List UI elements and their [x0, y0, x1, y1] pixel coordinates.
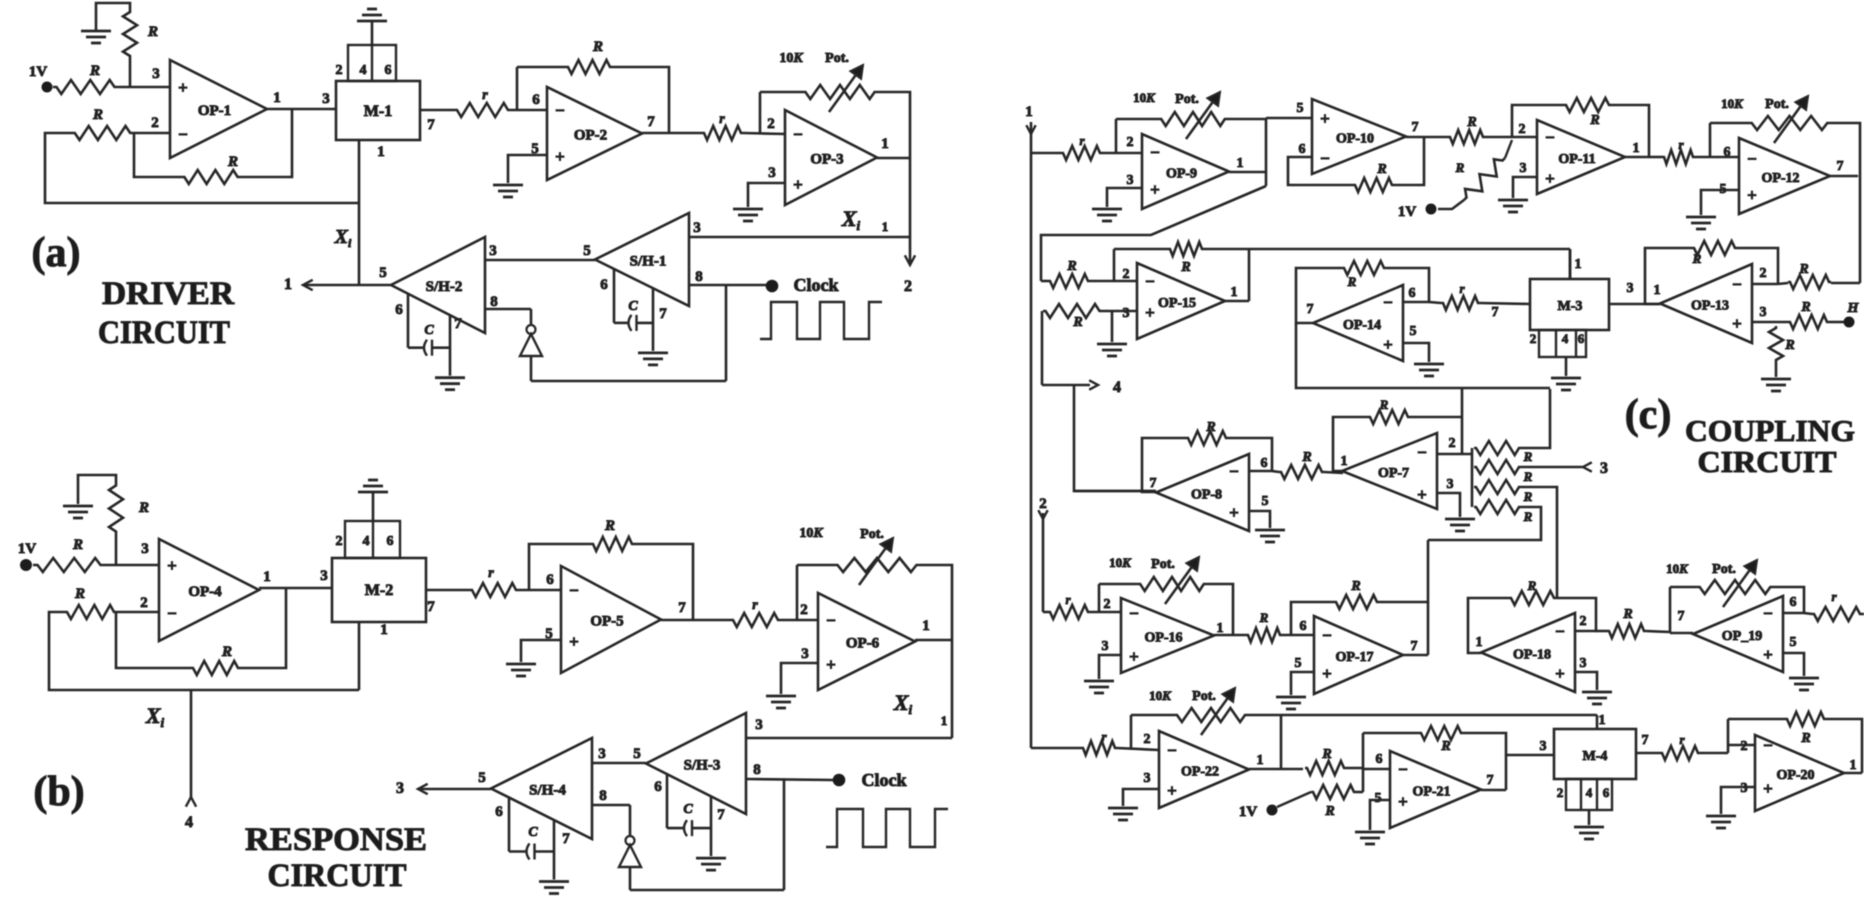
svg-text:1: 1	[1654, 283, 1661, 298]
svg-text:7: 7	[1411, 639, 1418, 654]
svg-text:6: 6	[1376, 752, 1383, 767]
svg-text:OP-5: OP-5	[590, 614, 623, 630]
svg-text:(a): (a)	[32, 230, 81, 276]
svg-text:3: 3	[1760, 305, 1767, 320]
svg-text:1: 1	[922, 618, 930, 634]
svg-text:OP-8: OP-8	[1191, 488, 1222, 503]
svg-text:7: 7	[454, 316, 462, 332]
svg-text:R: R	[1523, 509, 1533, 524]
svg-text:R: R	[72, 537, 83, 553]
svg-text:OP-4: OP-4	[188, 584, 222, 600]
svg-text:7: 7	[427, 117, 435, 133]
svg-text:R: R	[1523, 469, 1533, 484]
svg-text:−: −	[1417, 443, 1427, 462]
svg-text:7: 7	[1307, 302, 1314, 317]
svg-text:5: 5	[1410, 324, 1417, 339]
svg-text:Pot.: Pot.	[1765, 97, 1789, 112]
svg-text:Pot.: Pot.	[1192, 689, 1216, 704]
svg-text:5: 5	[1295, 656, 1302, 671]
svg-text:OP-15: OP-15	[1158, 296, 1196, 311]
svg-text:5: 5	[1375, 791, 1382, 806]
svg-text:OP-10: OP-10	[1336, 132, 1374, 147]
svg-text:OP-3: OP-3	[810, 152, 843, 168]
svg-text:6: 6	[495, 804, 503, 820]
svg-text:3: 3	[1144, 771, 1151, 786]
svg-text:7: 7	[659, 306, 667, 322]
svg-text:R: R	[1301, 450, 1311, 465]
svg-text:6: 6	[387, 534, 394, 549]
svg-text:2: 2	[1144, 732, 1151, 747]
svg-text:+: +	[826, 655, 836, 674]
svg-text:3: 3	[1580, 656, 1587, 671]
svg-text:5: 5	[633, 746, 641, 762]
svg-text:7: 7	[1492, 305, 1499, 320]
svg-text:−: −	[1129, 604, 1139, 623]
svg-text:R: R	[1466, 115, 1476, 130]
svg-text:3: 3	[1540, 739, 1547, 754]
svg-text:+: +	[1417, 485, 1427, 504]
svg-text:1: 1	[1476, 635, 1483, 650]
svg-text:1: 1	[380, 622, 388, 638]
svg-text:2: 2	[140, 595, 148, 611]
svg-text:Pot.: Pot.	[1712, 562, 1736, 577]
svg-text:1V: 1V	[1398, 204, 1417, 220]
svg-text:2: 2	[1557, 785, 1564, 800]
svg-text:7: 7	[427, 599, 435, 615]
svg-text:2: 2	[1127, 135, 1134, 150]
svg-text:4: 4	[360, 63, 367, 78]
svg-text:1: 1	[1237, 156, 1244, 171]
svg-text:R: R	[604, 518, 615, 534]
svg-text:S/H-1: S/H-1	[630, 254, 667, 270]
svg-text:OP-12: OP-12	[1761, 171, 1799, 186]
svg-text:+: +	[1732, 314, 1742, 333]
svg-text:CIRCUIT: CIRCUIT	[268, 858, 407, 894]
svg-text:7: 7	[1412, 120, 1419, 135]
svg-text:+: +	[167, 556, 177, 575]
svg-text:+: +	[1747, 185, 1757, 204]
svg-text:3: 3	[1600, 460, 1608, 477]
svg-text:R: R	[1180, 260, 1190, 275]
svg-text:3: 3	[489, 243, 497, 259]
svg-text:6: 6	[1603, 785, 1610, 800]
svg-text:1: 1	[263, 569, 271, 585]
svg-text:OP-2: OP-2	[574, 128, 607, 144]
svg-text:3: 3	[152, 66, 160, 82]
svg-text:R: R	[92, 107, 103, 123]
svg-text:OP_19: OP_19	[1722, 629, 1762, 644]
svg-text:1V: 1V	[1239, 804, 1258, 820]
svg-text:2: 2	[151, 115, 159, 131]
svg-text:10K: 10K	[1133, 90, 1156, 105]
svg-text:+: +	[1555, 664, 1565, 683]
svg-text:7: 7	[647, 114, 655, 130]
svg-text:r: r	[719, 112, 725, 127]
svg-text:R: R	[1523, 489, 1533, 504]
svg-text:S/H-3: S/H-3	[684, 758, 721, 774]
svg-text:Pot.: Pot.	[860, 527, 884, 542]
svg-text:R: R	[1440, 739, 1450, 754]
svg-text:8: 8	[695, 269, 703, 285]
svg-text:−: −	[1747, 150, 1757, 169]
svg-text:−: −	[569, 581, 579, 600]
svg-text:3: 3	[801, 646, 809, 662]
svg-text:−: −	[826, 611, 836, 630]
svg-text:R: R	[147, 24, 158, 40]
svg-text:2: 2	[336, 534, 343, 549]
svg-text:+: +	[1145, 303, 1155, 322]
svg-text:1: 1	[1599, 713, 1606, 728]
svg-text:10K: 10K	[799, 526, 824, 541]
svg-text:CIRCUIT: CIRCUIT	[1698, 444, 1837, 479]
svg-text:R: R	[1072, 315, 1082, 330]
svg-text:+: +	[1383, 335, 1393, 354]
svg-text:−: −	[1229, 462, 1239, 481]
svg-text:−: −	[1555, 622, 1565, 641]
svg-text:R: R	[1379, 397, 1389, 412]
svg-text:6: 6	[1724, 145, 1731, 160]
svg-text:6: 6	[532, 92, 540, 108]
svg-text:−: −	[1150, 143, 1160, 162]
svg-text:−: −	[1763, 736, 1773, 755]
svg-text:Clock: Clock	[794, 275, 839, 295]
svg-text:2: 2	[1530, 331, 1537, 346]
svg-text:7: 7	[1487, 773, 1494, 788]
svg-text:R: R	[1527, 578, 1537, 593]
svg-text:−: −	[167, 604, 177, 623]
svg-text:1: 1	[941, 713, 948, 728]
svg-text:3: 3	[322, 91, 330, 107]
svg-text:H: H	[1847, 301, 1860, 316]
svg-text:5: 5	[1790, 635, 1797, 650]
svg-text:3: 3	[755, 717, 763, 733]
svg-text:6: 6	[1300, 619, 1307, 634]
svg-text:1: 1	[377, 144, 385, 160]
svg-text:2: 2	[1519, 122, 1526, 137]
svg-text:2: 2	[800, 602, 808, 618]
svg-text:OP-14: OP-14	[1343, 318, 1381, 333]
svg-text:1: 1	[273, 90, 281, 106]
svg-text:M-2: M-2	[365, 582, 393, 599]
svg-text:R: R	[1784, 338, 1794, 353]
svg-text:7: 7	[1642, 733, 1649, 748]
svg-text:3: 3	[693, 220, 701, 236]
svg-text:5: 5	[1297, 101, 1304, 116]
svg-text:1: 1	[882, 219, 889, 234]
svg-text:OP-7: OP-7	[1378, 466, 1409, 481]
svg-text:R: R	[1589, 113, 1599, 128]
svg-text:2: 2	[767, 116, 775, 132]
svg-text:1: 1	[1633, 141, 1640, 156]
svg-text:R: R	[1622, 607, 1632, 622]
svg-text:R: R	[1259, 610, 1269, 625]
svg-text:−: −	[1320, 149, 1330, 168]
svg-text:+: +	[569, 632, 579, 651]
svg-text:7: 7	[1837, 159, 1844, 174]
svg-text:R: R	[592, 39, 603, 55]
svg-text:r: r	[488, 566, 494, 581]
svg-text:R: R	[1800, 300, 1810, 315]
svg-text:r: r	[752, 598, 758, 613]
svg-text:6: 6	[1578, 331, 1585, 346]
svg-text:R: R	[1347, 274, 1357, 289]
svg-text:3: 3	[1741, 781, 1748, 796]
svg-text:−: −	[1322, 626, 1332, 645]
svg-text:+: +	[555, 147, 565, 166]
svg-text:Pot.: Pot.	[1151, 557, 1175, 572]
svg-text:C: C	[424, 323, 434, 338]
svg-text:2: 2	[1741, 739, 1748, 754]
svg-text:2: 2	[1123, 267, 1130, 282]
svg-text:S/H-4: S/H-4	[529, 783, 566, 799]
svg-text:7: 7	[1678, 609, 1685, 624]
svg-text:R: R	[138, 500, 149, 516]
svg-text:6: 6	[654, 779, 662, 795]
svg-text:OP-9: OP-9	[1166, 167, 1197, 182]
svg-text:7: 7	[678, 600, 686, 616]
svg-text:2: 2	[336, 63, 343, 78]
svg-text:C: C	[528, 825, 538, 840]
svg-text:3: 3	[1127, 173, 1134, 188]
svg-text:+: +	[1229, 503, 1239, 522]
svg-text:3: 3	[141, 541, 149, 557]
svg-text:3: 3	[768, 165, 776, 181]
svg-text:10K: 10K	[1109, 555, 1132, 570]
svg-text:Pot.: Pot.	[825, 51, 849, 66]
svg-text:Pot.: Pot.	[1175, 92, 1199, 107]
svg-text:−: −	[1145, 272, 1155, 291]
svg-text:C: C	[628, 299, 638, 314]
svg-text:10K: 10K	[1721, 96, 1744, 111]
svg-text:4: 4	[1113, 379, 1121, 396]
svg-text:CIRCUIT: CIRCUIT	[98, 315, 230, 351]
svg-text:3: 3	[1520, 161, 1527, 176]
svg-text:(c): (c)	[1625, 392, 1672, 438]
svg-text:R: R	[1800, 731, 1810, 746]
svg-text:1: 1	[1575, 257, 1582, 272]
svg-text:3: 3	[1447, 477, 1454, 492]
svg-text:OP-21: OP-21	[1412, 785, 1450, 800]
svg-text:(b): (b)	[33, 769, 84, 815]
svg-text:+: +	[1763, 645, 1773, 664]
svg-text:6: 6	[1790, 595, 1797, 610]
svg-text:10K: 10K	[779, 51, 804, 66]
svg-text:10K: 10K	[1149, 688, 1172, 703]
svg-text:OP-17: OP-17	[1335, 650, 1373, 665]
svg-text:RESPONSE: RESPONSE	[245, 822, 427, 858]
svg-text:R: R	[1324, 804, 1334, 819]
svg-text:7: 7	[562, 831, 570, 847]
svg-text:R: R	[1692, 251, 1702, 266]
svg-text:+: +	[1320, 109, 1330, 128]
svg-text:OP-13: OP-13	[1691, 299, 1729, 314]
svg-text:R: R	[1321, 747, 1331, 762]
svg-text:6: 6	[1409, 286, 1416, 301]
svg-text:7: 7	[1150, 476, 1157, 491]
svg-text:−: −	[793, 125, 803, 144]
svg-text:2: 2	[1580, 614, 1587, 629]
svg-text:1: 1	[1231, 285, 1238, 300]
svg-text:−: −	[1398, 760, 1408, 779]
svg-text:−: −	[555, 101, 565, 120]
svg-text:1: 1	[1341, 454, 1348, 469]
svg-text:R: R	[1455, 160, 1465, 175]
svg-text:R: R	[1350, 579, 1360, 594]
svg-text:R: R	[1523, 449, 1533, 464]
svg-text:3: 3	[1627, 281, 1634, 296]
svg-text:+: +	[1129, 647, 1139, 666]
svg-text:6: 6	[1261, 456, 1268, 471]
svg-text:2: 2	[1760, 266, 1767, 281]
svg-text:2: 2	[1104, 597, 1111, 612]
svg-text:3: 3	[1102, 639, 1109, 654]
svg-text:6: 6	[385, 63, 392, 78]
svg-text:+: +	[1150, 180, 1160, 199]
svg-text:5: 5	[583, 243, 591, 259]
svg-text:1: 1	[881, 136, 889, 152]
svg-text:−: −	[1732, 275, 1742, 294]
svg-text:M-1: M-1	[364, 103, 392, 120]
svg-text:S/H-2: S/H-2	[426, 279, 463, 295]
svg-text:6: 6	[546, 572, 554, 588]
svg-text:M-4: M-4	[1583, 749, 1608, 764]
svg-text:+: +	[1322, 664, 1332, 683]
svg-text:R: R	[227, 154, 238, 170]
svg-text:5: 5	[478, 770, 486, 786]
svg-text:OP-16: OP-16	[1144, 631, 1182, 646]
svg-text:M-3: M-3	[1558, 299, 1583, 314]
svg-text:+: +	[1167, 781, 1177, 800]
svg-text:OP-11: OP-11	[1558, 152, 1595, 167]
svg-text:8: 8	[753, 762, 761, 778]
svg-text:4: 4	[1586, 785, 1593, 800]
svg-text:+: +	[178, 78, 188, 97]
svg-text:8: 8	[490, 294, 498, 310]
svg-text:6: 6	[600, 277, 608, 293]
svg-text:R: R	[89, 63, 100, 79]
svg-text:10K: 10K	[1666, 561, 1689, 576]
svg-text:5: 5	[1262, 494, 1269, 509]
svg-text:Clock: Clock	[862, 770, 907, 790]
svg-text:−: −	[178, 125, 188, 144]
svg-text:2: 2	[904, 278, 912, 295]
svg-text:4: 4	[1562, 331, 1569, 346]
svg-text:1V: 1V	[18, 541, 37, 557]
svg-text:R: R	[74, 586, 85, 602]
svg-text:3: 3	[320, 568, 328, 584]
svg-text:−: −	[1545, 128, 1555, 147]
svg-text:+: +	[793, 175, 803, 194]
svg-text:2: 2	[1449, 436, 1456, 451]
svg-text:R: R	[1798, 262, 1808, 277]
svg-text:1: 1	[1850, 758, 1857, 773]
svg-text:C: C	[683, 802, 693, 817]
svg-text:OP-1: OP-1	[198, 103, 231, 119]
svg-text:7: 7	[717, 807, 725, 823]
svg-text:+: +	[1763, 779, 1773, 798]
svg-text:OP-18: OP-18	[1513, 648, 1551, 663]
svg-text:1V: 1V	[29, 64, 48, 80]
svg-text:OP-22: OP-22	[1181, 765, 1219, 780]
svg-text:R: R	[221, 644, 232, 660]
svg-text:5: 5	[379, 265, 387, 281]
svg-text:1: 1	[284, 276, 292, 293]
svg-text:−: −	[1167, 741, 1177, 760]
svg-text:OP-6: OP-6	[846, 636, 880, 652]
svg-text:3: 3	[1123, 306, 1130, 321]
svg-text:2: 2	[1039, 496, 1047, 512]
svg-text:OP-20: OP-20	[1776, 768, 1814, 783]
svg-text:+: +	[1545, 169, 1555, 188]
svg-text:3: 3	[396, 780, 404, 797]
svg-text:8: 8	[599, 788, 607, 804]
svg-text:−: −	[1763, 604, 1773, 623]
svg-text:r: r	[482, 88, 488, 103]
svg-text:R: R	[1066, 259, 1076, 274]
svg-text:−: −	[1383, 293, 1393, 312]
svg-text:COUPLING: COUPLING	[1685, 413, 1855, 448]
svg-text:DRIVER: DRIVER	[102, 276, 235, 312]
svg-text:6: 6	[1299, 142, 1306, 157]
svg-text:R: R	[1205, 420, 1215, 435]
svg-text:4: 4	[363, 534, 370, 549]
svg-text:R: R	[1376, 162, 1386, 177]
svg-text:+: +	[1398, 792, 1408, 811]
svg-text:4: 4	[185, 814, 193, 831]
svg-text:1: 1	[1257, 753, 1264, 768]
svg-text:3: 3	[598, 746, 606, 762]
svg-text:1: 1	[1025, 104, 1033, 120]
svg-text:6: 6	[395, 302, 403, 318]
